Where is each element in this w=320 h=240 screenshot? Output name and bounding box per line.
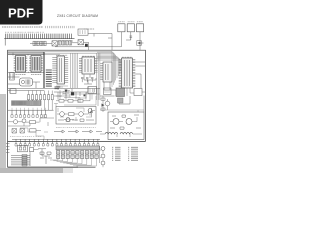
top bus lines (8, 52, 97, 55)
wire crystal drop (84, 42, 89, 50)
sub-board wires (58, 108, 92, 121)
centre-mid verticals (54, 89, 98, 107)
bus line vertical (43, 52, 45, 88)
page background (0, 0, 149, 198)
box right-mid (104, 88, 112, 95)
ceramic resonator Y1 (20, 78, 33, 86)
CPU IC U3 (52, 56, 68, 84)
regulator leads (55, 32, 144, 50)
ULA label (82, 55, 95, 57)
resistor R3 (26, 121, 40, 124)
U6 right wires (135, 62, 145, 88)
top comb labels (5, 31, 44, 33)
ULA IC U4 (79, 57, 98, 74)
wire mesh centre (54, 89, 100, 107)
IC U1 label (16, 74, 26, 76)
relay block (88, 87, 97, 94)
annex right wires (100, 146, 104, 167)
voltage regulator VR2 label (128, 21, 135, 23)
voltage regulator VR3 label (137, 21, 143, 23)
annex box B (30, 148, 39, 155)
wire modulator to regulators (88, 34, 112, 39)
transistor Q1 (8, 120, 22, 124)
transistor Q10 (101, 161, 105, 165)
resistor array leads (29, 91, 53, 111)
address bus bundle (97, 53, 100, 100)
cluster below CPU (56, 86, 68, 99)
junction blob 4 (84, 95, 86, 97)
resistor labels column (46, 70, 52, 86)
modulator M1 (78, 29, 88, 35)
coil wires (100, 134, 142, 137)
tape connector block (11, 154, 30, 166)
junction blob (85, 44, 88, 47)
osc small parts (110, 115, 141, 129)
U6 label (122, 56, 132, 58)
bottom page smudge band (0, 168, 63, 173)
video IC U6 (119, 58, 136, 88)
transistor Q5 (105, 99, 110, 110)
pull-up resistor comb (8, 110, 54, 115)
coil L1 (105, 132, 118, 134)
transistor Q6 (110, 119, 123, 125)
voltage regulator VR2 (127, 24, 134, 32)
wires around resonator (8, 77, 40, 88)
svg-text:ZX81 CIRCUIT DIAGRAM: ZX81 CIRCUIT DIAGRAM (57, 14, 98, 18)
voltage regulator VR1 (118, 24, 125, 32)
right-mid wires (100, 88, 144, 112)
CPU label (56, 54, 67, 56)
junction blob 3 (65, 90, 67, 92)
centre sub-board outline (56, 107, 96, 125)
transistor Q2 (22, 119, 26, 126)
annex small parts (40, 152, 52, 158)
keyboard bus bar (12, 101, 42, 106)
resistor array RA1 (28, 95, 54, 100)
transistor Q4 (79, 110, 89, 116)
keyboard header bar (56, 146, 100, 150)
resistor R6 (68, 100, 78, 103)
diode row D4-D7 (54, 130, 102, 133)
diode D1 (137, 41, 142, 46)
voltage regulator VR1 label (118, 21, 124, 23)
wires centre-mid (54, 87, 100, 98)
main schematic frame (8, 50, 146, 141)
transistor Q12 (64, 118, 74, 122)
left page-edge shading (0, 94, 6, 172)
key switch row 2 (57, 155, 99, 158)
net label blob (55, 87, 61, 89)
pull-up resistors row (11, 115, 47, 118)
transistor Q8 (101, 147, 105, 154)
bus corner bends (97, 51, 121, 87)
box right-mid2 (134, 89, 145, 96)
junction blob 2 (71, 92, 74, 95)
bus wires top-left (8, 53, 44, 56)
annex box A (18, 145, 28, 152)
annex left ticks (6, 144, 10, 153)
logic IC U5 (100, 62, 112, 82)
key switch row 1 (57, 151, 99, 154)
wire under memory ICs (8, 72, 44, 77)
wire top-right drop (108, 38, 112, 50)
resistor R5 (56, 100, 68, 103)
transistor Q3 (57, 112, 68, 117)
voltage regulator VR3 (136, 24, 143, 32)
caption under badge (2, 26, 43, 28)
edge connector left lead (4, 39, 6, 46)
switch group S1 (30, 41, 52, 45)
connector pin-number row (46, 26, 75, 28)
transistor Q11 (88, 109, 95, 116)
svg-text:PDF: PDF (8, 5, 34, 20)
capacitor C2 (90, 108, 93, 117)
transistor Q7 (126, 117, 137, 125)
data bus bundle (71, 53, 78, 88)
oscillator sub-frame (108, 112, 144, 140)
mid-left tiny text (10, 136, 41, 138)
PDF badge (0, 0, 43, 25)
bottom smudge fade (63, 168, 73, 173)
coil L2 (120, 132, 133, 134)
wires under ULA (84, 75, 96, 85)
switch group S2 (59, 41, 78, 45)
parts ladder left (101, 96, 105, 112)
capacitor C1 (130, 36, 133, 40)
U5 lower wires (104, 82, 116, 96)
diode D2 (12, 129, 17, 134)
crystal X1 (52, 41, 58, 46)
comb lower marks (58, 40, 73, 42)
staircase wire (20, 128, 48, 139)
wire right band (100, 110, 144, 112)
comb upper stubs (12, 108, 46, 110)
mid-left wires2 (8, 114, 54, 126)
sub-board bottom parts (58, 119, 94, 121)
resistor R7 (78, 94, 90, 102)
crystal X2 (78, 40, 84, 45)
lower annex outline (8, 141, 96, 167)
small box mid-left (10, 89, 16, 94)
parts legend column 1 (112, 147, 121, 160)
decoupling block (10, 73, 15, 81)
edge connector comb (4, 34, 74, 39)
memory IC U2 (29, 56, 43, 73)
grey block lower (118, 98, 124, 103)
keyboard matrix comb (12, 139, 100, 143)
diode D3 (20, 129, 25, 134)
transistor Q9 (101, 154, 105, 161)
annex bottom line (8, 166, 78, 168)
capacitors under ULA (81, 78, 93, 83)
keyboard wire fan (50, 158, 96, 166)
resistor R4 (30, 129, 42, 132)
centre-mid labels (56, 127, 96, 129)
wires mid-left top (8, 89, 54, 94)
IC U2 label (31, 74, 41, 76)
resistor R8 (69, 113, 79, 116)
grey block heat-sink (116, 88, 125, 97)
U6 bottom drops (121, 88, 134, 96)
modulator label (84, 28, 94, 30)
keyboard matrix resistors (15, 144, 99, 146)
memory IC U1 (14, 56, 28, 73)
annex mid wires (38, 149, 50, 164)
parts legend column 2 (128, 147, 138, 160)
